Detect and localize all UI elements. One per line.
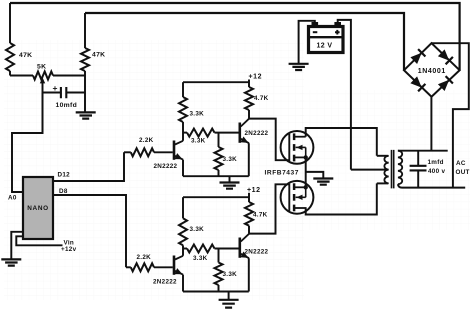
microcontroller U1 NANO xyxy=(23,177,53,239)
svg-text:3.3K: 3.3K xyxy=(190,226,205,233)
resistor R12 3.3K xyxy=(187,245,215,253)
svg-text:A0: A0 xyxy=(8,195,17,202)
wire capacitor to R3 node xyxy=(66,92,85,94)
wire upper drain to transformer xyxy=(306,128,377,156)
wire Q1 collector to 3.3K R7 xyxy=(183,132,187,134)
wire bridge diamond xyxy=(404,43,460,96)
wire secondary top lead xyxy=(398,150,448,152)
transistor Q2 2N2222 xyxy=(239,123,242,143)
transformer T1 core xyxy=(392,150,394,189)
wire ground stem top driver xyxy=(229,176,231,182)
potentiometer R2 5K track xyxy=(33,72,53,80)
resistor R9 2.2K xyxy=(131,263,154,271)
svg-text:D12: D12 xyxy=(58,172,71,179)
wire R1 bottom to pot xyxy=(9,71,11,76)
wire R13 to emitter rail xyxy=(218,285,220,292)
transistor Q1 2N2222 arrow xyxy=(174,153,182,159)
wire D12 to top driver input xyxy=(53,152,124,181)
wire NANO Vin lead xyxy=(16,236,62,245)
wire battery positive to center tap xyxy=(338,20,351,170)
svg-text:+12v: +12v xyxy=(61,246,77,253)
wire second rail (node to bridge left) xyxy=(85,13,404,70)
wire NANO ground lead xyxy=(11,232,23,259)
wire Q2 emitter down xyxy=(248,143,250,176)
wire Q4 emitter down xyxy=(248,258,250,291)
transistor Q1 2N2222 xyxy=(173,141,176,160)
wire R8 to emitter rail xyxy=(218,170,220,176)
wire pot right segment xyxy=(53,75,85,77)
svg-text:400 v: 400 v xyxy=(428,168,445,175)
wire secondary bottom lead xyxy=(398,184,465,187)
svg-text:12 V: 12 V xyxy=(317,43,333,50)
wire +12 stub xyxy=(248,80,250,88)
diode D3 1N4001 left-bottom xyxy=(410,76,421,87)
diode D2 1N4001 top-right xyxy=(438,49,449,60)
wire ground stem bottom driver xyxy=(228,292,230,300)
svg-text:2.2K: 2.2K xyxy=(139,137,154,144)
wire node to 3.3K R13 xyxy=(218,249,220,263)
resistor R13 3.3K xyxy=(215,263,223,286)
svg-text:+12: +12 xyxy=(249,74,263,81)
transistor Q4 2N2222 xyxy=(239,238,242,258)
svg-text:NANO: NANO xyxy=(27,205,49,212)
transistor Q3 2N2222 arrow xyxy=(174,268,182,274)
capacitor C2 stem top xyxy=(417,151,419,166)
wire left drop from top rail xyxy=(9,3,11,43)
resistor R5 3.3K xyxy=(179,97,187,122)
wire bridge bottom corner down xyxy=(430,97,432,151)
svg-text:3.3K: 3.3K xyxy=(190,111,205,118)
svg-text:2N2222: 2N2222 xyxy=(245,249,269,256)
svg-text:3.3K: 3.3K xyxy=(223,271,238,278)
svg-text:D8: D8 xyxy=(59,188,68,195)
svg-text:IRFB7437: IRFB7437 xyxy=(265,169,299,176)
svg-text:3.3K: 3.3K xyxy=(193,255,208,262)
wire R6 to Q2 collector node xyxy=(248,110,250,119)
wire battery negative to ground xyxy=(299,21,315,64)
wire 47K R3 top lead xyxy=(84,13,86,48)
wire source bus between MOSFETs xyxy=(305,157,307,187)
wire input to 2.2K R4 xyxy=(124,151,131,153)
resistor R8 3.3K xyxy=(215,147,223,170)
wire +12 rail top driver xyxy=(183,81,249,83)
wire Q2 collector to upper gate xyxy=(249,119,289,161)
ground G5 MOSFET sources xyxy=(313,179,333,185)
wire wiper down to A0 branch xyxy=(12,93,43,193)
svg-text:+12: +12 xyxy=(247,187,261,194)
resistor R10 3.3K xyxy=(179,218,187,245)
mosfet M1 IRFB7437 upper xyxy=(281,131,314,164)
wire Q1 collector up xyxy=(182,122,184,141)
svg-text:4.7K: 4.7K xyxy=(254,95,269,102)
wire R5 to +12 rail xyxy=(182,82,184,97)
wire R11 to Q4 collector node xyxy=(248,226,250,234)
svg-text:3.3K: 3.3K xyxy=(191,138,206,145)
wire primary bottom lead xyxy=(377,182,388,184)
transistor Q4 2N2222 arrow xyxy=(240,252,248,258)
wire +12 stub bottom xyxy=(248,193,250,202)
wire source ground branch xyxy=(306,172,324,178)
wire R9 to Q3 base xyxy=(154,266,173,268)
svg-text:+: + xyxy=(53,83,58,93)
mosfet M2 IRFB7437 lower body arrow xyxy=(296,195,302,200)
svg-text:47K: 47K xyxy=(92,52,105,59)
transistor Q3 2N2222 xyxy=(173,256,176,275)
potentiometer R2 wiper stem xyxy=(42,82,44,133)
svg-text:OUT: OUT xyxy=(456,169,470,176)
svg-text:AC: AC xyxy=(456,160,466,167)
mosfet M2 IRFB7437 lower xyxy=(281,181,314,214)
wire D8 to bottom driver input xyxy=(53,195,126,267)
svg-text:3.3K: 3.3K xyxy=(223,156,238,163)
svg-text:4.7K: 4.7K xyxy=(253,212,268,219)
wire primary top lead xyxy=(377,155,388,157)
battery BT1 12V xyxy=(309,27,344,53)
svg-text:10mfd: 10mfd xyxy=(56,102,78,109)
potentiometer R2 wiper arrow xyxy=(40,77,45,83)
capacitor C1 10mfd plates xyxy=(61,87,66,98)
wire R12 to Q4 base xyxy=(215,248,239,250)
resistor R3 47K xyxy=(81,48,89,71)
resistor R6 4.7K xyxy=(245,87,253,110)
svg-text:5K: 5K xyxy=(37,64,46,71)
wire lower drain to transformer xyxy=(306,183,377,214)
wire Q3 collector up xyxy=(182,245,184,256)
svg-text:2N2222: 2N2222 xyxy=(153,279,177,286)
diode D1 1N4001 left-top xyxy=(410,53,421,64)
diode D4 1N4001 bottom-right xyxy=(438,80,449,91)
svg-text:1mfd: 1mfd xyxy=(428,159,444,166)
capacitor C2 1mfd 400v plates xyxy=(410,166,427,171)
resistor R11 4.7K xyxy=(245,202,253,226)
wire emitter rail bottom driver xyxy=(183,291,249,293)
wire +12 rail bottom driver xyxy=(183,196,249,198)
ground G1 below R3 xyxy=(76,112,96,118)
transformer T1 primary winding xyxy=(384,156,388,184)
svg-text:2N2222: 2N2222 xyxy=(245,130,269,137)
svg-text:2.2K: 2.2K xyxy=(137,254,152,261)
wire R4 to Q1 base xyxy=(154,151,173,153)
wire R7 to Q2 base xyxy=(215,132,239,134)
wire Q3 collector to 3.3K R12 xyxy=(183,248,187,250)
resistor R7 3.3K xyxy=(187,129,215,137)
wire pot left segment xyxy=(10,75,33,77)
mosfet M1 IRFB7437 upper body arrow xyxy=(296,145,302,150)
wire input to 2.2K R9 xyxy=(126,266,131,268)
ground G4 top driver xyxy=(220,183,240,189)
svg-text:2N2222: 2N2222 xyxy=(154,163,178,170)
wire Q1 emitter down xyxy=(182,160,184,177)
capacitor C2 stem bottom xyxy=(417,170,419,187)
wire wiper node to capacitor xyxy=(43,92,61,94)
ground G2 NANO xyxy=(1,259,21,265)
ground G6 bottom driver xyxy=(219,300,239,308)
svg-text:1N4001: 1N4001 xyxy=(418,68,446,75)
wire Q3 emitter down xyxy=(182,275,184,292)
wire Q4 collector to lower gate xyxy=(249,184,289,233)
transformer T1 secondary winding xyxy=(398,151,402,185)
wire bridge top corner to DC line xyxy=(432,43,469,187)
wire emitter rail top driver xyxy=(183,175,249,177)
transistor Q2 2N2222 arrow xyxy=(240,137,248,143)
svg-text:47K: 47K xyxy=(19,52,32,59)
wire R3 bottom to ground node xyxy=(84,71,86,112)
resistor R4 2.2K xyxy=(131,148,154,156)
wire node to 3.3K R8 xyxy=(218,133,220,147)
resistor R1 47K xyxy=(6,43,14,71)
wire primary center tap xyxy=(351,169,388,171)
wire top rail (node to bridge right) xyxy=(10,3,460,70)
ground G3 battery xyxy=(289,64,309,70)
wire R10 to +12 rail xyxy=(182,197,184,218)
